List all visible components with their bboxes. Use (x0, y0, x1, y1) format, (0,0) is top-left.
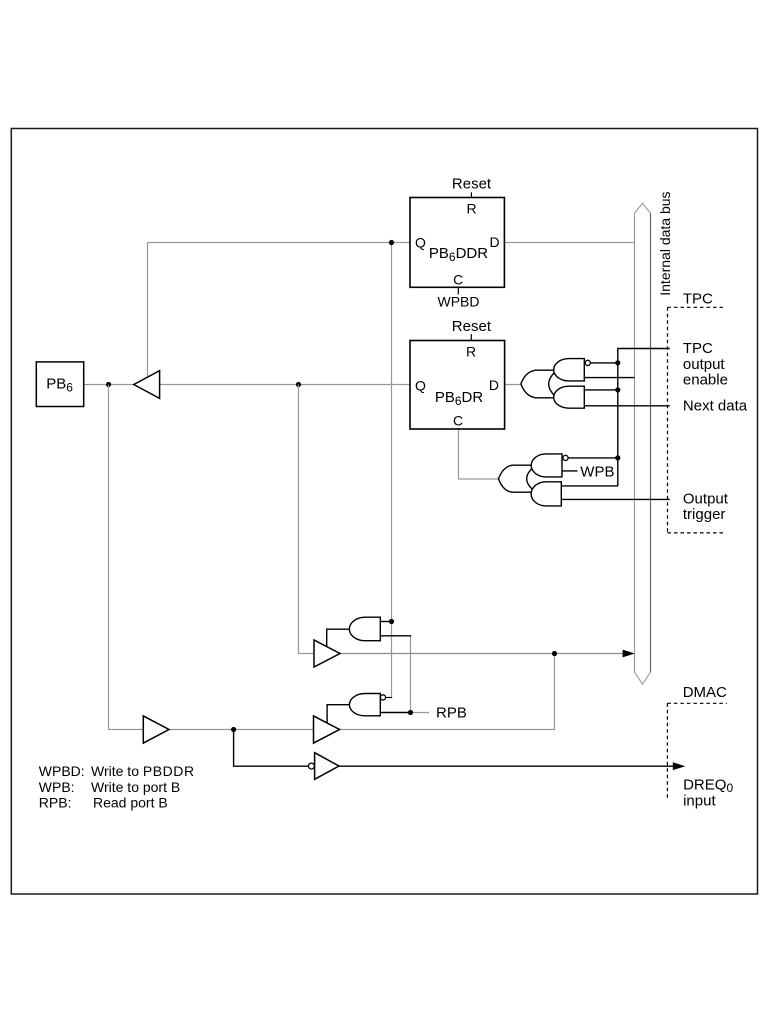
nand-gate NAND3 (WPB, not TPC enable) (531, 454, 562, 477)
wire: A5 control to buffer A (327, 629, 350, 646)
svg-text:Q: Q (415, 234, 426, 250)
wire: pin line down to read buffer B (109, 385, 144, 730)
wire: WPB stub to NAND3 (561, 470, 577, 472)
wire: read buffer B output (169, 729, 314, 731)
svg-text:D: D (489, 234, 499, 250)
junction A5 input on DDR Q line (389, 619, 394, 624)
arrow to DMAC DREQ0 input (673, 762, 686, 770)
svg-text:PB6DDR: PB6DDR (429, 245, 488, 264)
junction on pin wire (106, 382, 111, 387)
read buffer B (pin state read) (143, 716, 169, 743)
wire: A5 bottom input stub (RPB) (380, 635, 411, 637)
wire: NAND6 control to buffer C (327, 705, 350, 723)
arrow into internal data bus (623, 650, 635, 658)
internal data bus (635, 203, 651, 684)
register PB6DDR (410, 198, 504, 288)
wire: PB6DR D to mux OR1 (505, 384, 522, 386)
junction on PB6DDR Q (389, 240, 394, 245)
TPC dashed box (668, 307, 726, 533)
and-gate A5 (RPB and DDR=1) (349, 617, 380, 641)
bubble on NAND6 input (380, 695, 385, 700)
or-gate OR1 (PB6DR D input mux) (521, 370, 557, 398)
junction RPB (408, 710, 413, 715)
junction read line to DREQ branch (231, 727, 236, 732)
svg-text:TPC: TPC (683, 291, 713, 308)
inverter (DREQ0 output) (315, 753, 339, 780)
wire: Output trigger input to A4 (561, 498, 670, 500)
wire: Next data input to A2 (584, 405, 670, 407)
svg-text:TPC: TPC (683, 340, 713, 357)
svg-text:WPBD:Write to PBDDR: WPBD:Write to PBDDR (39, 763, 195, 779)
junction on PB6DR Q (296, 382, 301, 387)
read buffer A (PB6DR read) (314, 640, 340, 667)
nand-gate NAND6 (RPB and DDR=0) (349, 694, 380, 716)
pin box PB6 (36, 362, 83, 407)
label WPBD clock input (438, 287, 480, 309)
wire: RPB vertical to A5 input (410, 636, 412, 713)
svg-text:WPB: WPB (580, 463, 614, 480)
wire: PB6DDR D to internal data bus (504, 242, 634, 244)
bubble on inverter input (308, 763, 314, 769)
wire: read buffer C output up to bus line (340, 654, 555, 730)
svg-text:RPB:Read port B: RPB:Read port B (39, 795, 168, 811)
wire: read data line to internal data bus (340, 653, 624, 655)
DMAC dashed box (667, 703, 727, 800)
label Reset (PB6DR) (452, 318, 492, 341)
bubble on NAND3 input (563, 455, 568, 460)
svg-text:output: output (683, 356, 726, 373)
svg-text:R: R (466, 344, 476, 360)
wire: TPC output enable net (618, 349, 670, 486)
wire: RPB stub and label lead (411, 712, 430, 714)
wire: PB6DR Q to output buffer input (160, 384, 410, 386)
output buffer (tri-state, drives pin) (134, 371, 160, 399)
svg-text:Internal data bus: Internal data bus (657, 191, 673, 295)
svg-text:C: C (453, 413, 463, 429)
wire: A1 inverted input to TPC enable (590, 362, 617, 364)
svg-text:Reset: Reset (452, 176, 492, 193)
wire: PB6DDR Q feedback to output buffer control (148, 243, 411, 378)
wire: DREQ branch down to inverter (234, 730, 309, 767)
wire: PB6DR Q down to read buffer A (299, 385, 315, 654)
bubble on A1 input (585, 360, 590, 365)
wire: inverter output to DMAC (339, 765, 674, 767)
svg-text:R: R (467, 201, 477, 217)
wire: clock mux OR2 to PB6DR C (459, 429, 500, 479)
svg-text:input: input (683, 792, 716, 809)
svg-text:Next data: Next data (683, 397, 748, 414)
read buffer C (to internal data bus) (314, 716, 340, 743)
svg-text:Output: Output (683, 490, 729, 507)
wire: pin PB6 to output buffer (84, 384, 134, 386)
svg-text:DMAC: DMAC (683, 684, 727, 701)
wire: A1 data input from internal data bus (584, 377, 634, 379)
svg-text:Reset: Reset (452, 318, 492, 335)
wire: A4 input from TPC enable (561, 485, 618, 487)
wire: NAND6 bubble stub to DDR Q vertical (386, 697, 393, 699)
junction TPC enable to A2 (615, 387, 620, 392)
and-gate A2 (next data, TPC enable) (554, 386, 585, 408)
svg-text:RPB: RPB (436, 704, 467, 721)
junction TPC enable to A1 bubble (615, 360, 620, 365)
svg-text:WPB:Write to port B: WPB:Write to port B (39, 779, 180, 795)
svg-text:enable: enable (683, 372, 728, 389)
svg-text:trigger: trigger (683, 506, 726, 523)
or-gate OR2 (PB6DR clock mux) (499, 465, 537, 492)
wire: A5 top input to PB6DDR Q (380, 621, 392, 623)
label Reset (PB6DDR) (452, 176, 492, 198)
register PB6DR (410, 341, 505, 430)
and-gate A1 (internal data, not TPC enable) (554, 359, 585, 381)
wire: vertical PB6DDR Q down to read gates (391, 243, 393, 698)
svg-text:C: C (453, 271, 463, 287)
svg-text:Q: Q (415, 377, 426, 393)
svg-text:D: D (489, 377, 499, 393)
junction TPC enable to NAND3 bubble (615, 455, 620, 460)
junction of read buffers (552, 651, 557, 656)
wire: NAND6 input stub to RPB (380, 712, 410, 714)
wire: NAND3 inverted input to TPC enable (568, 457, 618, 459)
svg-text:WPBD: WPBD (438, 294, 480, 310)
wire: A2 input from TPC enable (584, 389, 618, 391)
and-gate A4 (output trigger, TPC enable) (531, 482, 561, 506)
